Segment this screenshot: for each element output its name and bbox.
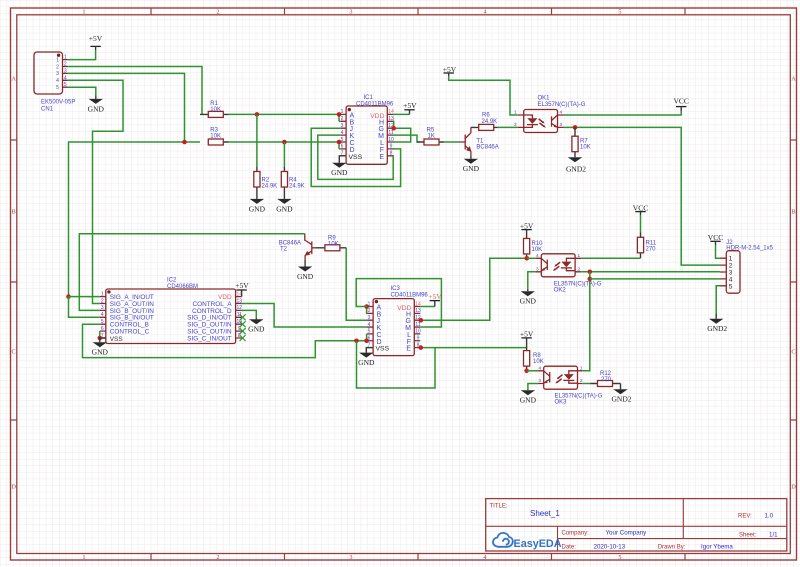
svg-text:Your Company: Your Company xyxy=(606,530,648,537)
wire junction to IC2.4 xyxy=(69,297,100,318)
svg-text:1: 1 xyxy=(580,366,583,372)
svg-text:1/1: 1/1 xyxy=(769,531,778,538)
svg-text:C: C xyxy=(11,349,15,356)
svg-text:1: 1 xyxy=(514,110,517,116)
svg-text:OK3: OK3 xyxy=(555,400,568,406)
svg-text:VCC: VCC xyxy=(673,97,688,106)
svg-text:6: 6 xyxy=(101,326,104,332)
wire R8 node to OK3 pin4 xyxy=(527,370,538,372)
node junction IC3 pin12 xyxy=(419,318,424,323)
svg-text:5: 5 xyxy=(101,319,104,325)
svg-text:3: 3 xyxy=(349,554,352,561)
resistor R5 1K xyxy=(417,128,444,146)
svg-text:CONTROL_C: CONTROL_C xyxy=(110,329,150,336)
svg-text:R6: R6 xyxy=(482,113,490,119)
svg-text:+5V: +5V xyxy=(235,281,249,290)
wire VCC to J2 pin1 xyxy=(716,245,721,258)
node junction IC3 pin6 tie xyxy=(364,338,369,343)
svg-text:A: A xyxy=(11,76,16,83)
svg-text:10: 10 xyxy=(415,329,421,335)
svg-text:C: C xyxy=(791,349,795,356)
ground GND (IC2 pin12) xyxy=(248,318,265,334)
svg-text:VDD: VDD xyxy=(370,113,384,120)
svg-text:5: 5 xyxy=(618,554,621,561)
svg-text:3: 3 xyxy=(368,315,371,321)
svg-text:+5V: +5V xyxy=(89,34,103,43)
resistor R10 10K xyxy=(524,230,544,259)
node junction J2 pin4 tap xyxy=(588,277,593,282)
svg-text:10K: 10K xyxy=(533,359,544,365)
wire CN1.3 to R3 junction xyxy=(68,73,185,142)
node junction IC3 pin8 xyxy=(419,345,424,350)
wire tap to J2 pin4 xyxy=(590,278,720,280)
wire junction to R3 left xyxy=(185,141,201,143)
svg-text:REV:: REV: xyxy=(738,513,752,519)
svg-text:T2: T2 xyxy=(280,247,288,253)
svg-text:GND: GND xyxy=(248,325,265,334)
optocoupler OK1 EL357N(C)(TA)-G xyxy=(514,96,586,133)
svg-text:VDD: VDD xyxy=(397,305,411,312)
wire IC2.12 CONTROL_D to GND xyxy=(242,310,257,318)
svg-text:9: 9 xyxy=(390,144,393,150)
wire OK2 pin2 to J2 pin3 xyxy=(581,271,720,273)
svg-text:11: 11 xyxy=(415,322,420,328)
wire IC2.13 CONTROL_A to IC3 pin4 xyxy=(242,304,368,328)
wire CN1.1 to +5V xyxy=(68,50,96,60)
wire junction to R2 xyxy=(256,114,258,166)
svg-text:1: 1 xyxy=(82,554,85,561)
svg-text:9: 9 xyxy=(417,336,420,342)
wire IC2.6 CONTROL_C to VSS xyxy=(99,331,101,338)
ground GND (R2) xyxy=(249,199,266,214)
svg-text:Date:: Date: xyxy=(562,545,577,551)
svg-text:VSS: VSS xyxy=(110,336,123,343)
no-connect X IC2 pin11 xyxy=(240,314,246,320)
svg-text:Igor Ybema: Igor Ybema xyxy=(701,544,733,551)
svg-text:OK2: OK2 xyxy=(554,287,567,293)
svg-text:GND: GND xyxy=(92,348,109,357)
svg-text:8: 8 xyxy=(390,151,393,157)
node junction CN1.3/R3 xyxy=(182,140,187,145)
wire junction to IC2 net xyxy=(69,142,185,297)
svg-text:2: 2 xyxy=(216,554,219,561)
wire CN1.2 to R1 xyxy=(68,67,203,115)
svg-text:GND2: GND2 xyxy=(566,165,586,174)
wire IC2.5 CONTROL_B to IC3 pin6 xyxy=(83,324,368,357)
svg-text:OK1: OK1 xyxy=(538,96,551,102)
wire IC3 pin5 tie pin6 xyxy=(366,334,369,341)
power flag +5V (CN1 pin1) xyxy=(89,34,103,46)
svg-text:CD4011BM96: CD4011BM96 xyxy=(391,293,429,299)
ground GND2 (J2) xyxy=(707,314,727,333)
svg-text:GND: GND xyxy=(520,297,537,306)
svg-text:GND: GND xyxy=(331,168,348,177)
svg-text:VSS: VSS xyxy=(349,154,363,161)
title block xyxy=(486,499,787,551)
wire IC1 pin11 to R5 xyxy=(393,135,419,142)
svg-text:10K: 10K xyxy=(532,247,543,253)
wire IC3 pin1 tie pin2 xyxy=(366,307,369,314)
svg-text:GND: GND xyxy=(276,204,293,213)
svg-text:4: 4 xyxy=(64,75,67,81)
svg-text:2: 2 xyxy=(341,116,344,122)
ground GND (IC3 VSS) xyxy=(358,348,375,367)
svg-text:270: 270 xyxy=(646,247,657,253)
wire OK2 pin3 to GND xyxy=(528,272,536,289)
wire +5V to OK1 pin1 xyxy=(448,73,450,76)
svg-text:IC3: IC3 xyxy=(391,286,401,292)
transistor T2 BC846A xyxy=(279,234,316,260)
power flag +5V (R8) xyxy=(520,330,534,343)
wire OK3 pin2 to R12 xyxy=(582,383,590,385)
transistor T1 BC846A xyxy=(459,127,499,156)
resistor R11 270 xyxy=(637,233,656,259)
resistor R9 10K xyxy=(315,236,346,251)
svg-text:GND2: GND2 xyxy=(707,324,727,333)
wire OK1 pin4 to VCC xyxy=(564,111,682,115)
wire junction to R4 xyxy=(283,142,285,167)
svg-text:VSS: VSS xyxy=(376,346,390,353)
svg-text:3: 3 xyxy=(538,378,541,384)
ground GND (IC2 VSS) xyxy=(92,338,109,357)
ground GND (T1) xyxy=(463,157,480,174)
power flag +5V (IC1 pin14) xyxy=(393,101,417,114)
optocoupler OK3 EL357N(C)(TA)-G xyxy=(538,366,603,406)
svg-text:BC846A: BC846A xyxy=(476,144,498,150)
svg-text:CN1: CN1 xyxy=(41,107,54,113)
svg-text:4: 4 xyxy=(536,253,539,259)
wire IC3 pin12 to OK2 pin4 node xyxy=(420,258,527,320)
node junction R3/R4 xyxy=(282,140,287,145)
svg-text:B: B xyxy=(11,209,15,216)
node junction OK1.3/R7 xyxy=(573,125,578,130)
resistor R6 24.9K xyxy=(471,113,498,131)
svg-text:EK500V-05P: EK500V-05P xyxy=(41,100,75,106)
svg-text:IC1: IC1 xyxy=(364,95,374,101)
svg-text:24.9K: 24.9K xyxy=(482,119,498,125)
optocoupler OK2 EL357N(C)(TA)-G xyxy=(535,253,602,293)
wire junction to IC2.1 xyxy=(69,296,100,298)
svg-text:2: 2 xyxy=(101,298,104,304)
resistor R7 10K xyxy=(572,127,591,157)
wire IC2.3 from T2 collector xyxy=(79,234,304,311)
svg-text:+5V: +5V xyxy=(403,101,417,110)
svg-text:CD4011BM96: CD4011BM96 xyxy=(356,102,394,108)
wire R6 to OK1 pin2 xyxy=(498,126,518,128)
no-connect X IC2 pin10 xyxy=(240,321,246,327)
svg-text:13: 13 xyxy=(415,308,421,314)
resistor R1 10K xyxy=(200,101,229,117)
svg-text:1: 1 xyxy=(578,253,581,259)
wire IC1 pins 12-13 tie to pin10 xyxy=(393,121,411,142)
svg-text:3: 3 xyxy=(560,122,563,128)
wire R5 to T1 base xyxy=(444,141,460,143)
svg-text:2: 2 xyxy=(514,122,517,128)
svg-text:Drawn By:: Drawn By: xyxy=(658,545,686,551)
svg-text:IC2: IC2 xyxy=(167,278,177,284)
node junction OK2 pin4 xyxy=(525,256,530,261)
no-connect X IC2 pin9 xyxy=(240,328,246,334)
resistor R4 24.9K xyxy=(281,167,304,199)
wire R10 node to OK2 pin4 xyxy=(527,257,536,259)
svg-text:2: 2 xyxy=(56,64,59,70)
svg-text:VCC: VCC xyxy=(633,203,648,212)
wire IC3 pin1 loop to pin11 xyxy=(356,279,441,327)
svg-text:4: 4 xyxy=(368,322,371,328)
ground GND2 (R12) xyxy=(612,384,632,404)
power flag +5V (IC3 pin14) red label xyxy=(420,292,442,307)
power flag +5V (R10) xyxy=(520,221,534,230)
svg-text:Sheet:: Sheet: xyxy=(739,532,757,538)
svg-text:D: D xyxy=(11,484,16,491)
power flag +5V (IC2 pin14) xyxy=(235,281,249,296)
svg-text:VCC: VCC xyxy=(708,233,723,242)
resistor R3 10K xyxy=(208,128,229,146)
svg-text:2020-10-13: 2020-10-13 xyxy=(594,544,626,551)
IC IC3 CD4011BM96 xyxy=(367,286,428,356)
svg-text:6: 6 xyxy=(341,144,344,150)
power flag VCC (OK1 pin4) xyxy=(673,97,688,111)
svg-text:EasyEDA: EasyEDA xyxy=(514,538,562,550)
node junction IC2 pin1 net xyxy=(66,294,71,299)
node junction R1/R2 xyxy=(255,112,260,117)
ground GND (IC1 VSS) xyxy=(331,156,348,177)
svg-text:CD4066BM: CD4066BM xyxy=(167,284,198,290)
node junction OK3 pin4 xyxy=(524,369,529,374)
svg-text:3: 3 xyxy=(101,305,104,311)
svg-text:1: 1 xyxy=(101,291,104,297)
connector CN1 EK500V-05P xyxy=(34,52,75,113)
wire R3 to IC1 pins 5-6 xyxy=(229,142,341,149)
svg-text:3: 3 xyxy=(349,9,352,16)
wire CN1.4 to IC2.2 xyxy=(68,80,124,303)
svg-text:2: 2 xyxy=(64,62,67,68)
ground GND (OK2) xyxy=(520,289,537,306)
svg-text:1: 1 xyxy=(64,55,67,61)
node junction IC3 pin6 loop xyxy=(354,338,359,343)
svg-text:1K: 1K xyxy=(428,134,435,140)
svg-text:VDD: VDD xyxy=(218,294,232,301)
svg-text:2: 2 xyxy=(578,266,581,272)
connector J2 HDR-M-2.54_1x5 xyxy=(720,240,774,293)
svg-text:1.0: 1.0 xyxy=(765,512,774,519)
svg-text:2: 2 xyxy=(368,308,371,314)
node junction IC2 VSS xyxy=(98,336,103,341)
node junction IC3 pin1 xyxy=(364,304,369,309)
svg-text:4: 4 xyxy=(56,78,59,84)
resistor R12 270 xyxy=(590,371,620,387)
svg-text:E: E xyxy=(379,154,384,161)
node junction IC1 pin1 xyxy=(337,112,342,117)
svg-text:TITLE:: TITLE: xyxy=(490,504,508,510)
node junction IC1 pin5 xyxy=(337,140,342,145)
svg-text:GND: GND xyxy=(249,204,266,213)
svg-text:EL357N(C)(TA)-G: EL357N(C)(TA)-G xyxy=(538,102,586,108)
svg-text:5: 5 xyxy=(618,9,621,16)
svg-text:14: 14 xyxy=(415,301,421,307)
wire IC3 pin6 loop to pin8 xyxy=(357,341,436,388)
svg-text:SIG_C_IN/OUT: SIG_C_IN/OUT xyxy=(187,335,231,342)
wire R9 to IC3 pin3 xyxy=(346,248,367,320)
svg-text:1: 1 xyxy=(341,109,344,115)
svg-text:4: 4 xyxy=(560,110,563,116)
wire IC1 pin4 from pin8 xyxy=(318,135,393,179)
resistor R8 10K xyxy=(524,343,544,371)
ground GND (CN1) xyxy=(88,96,105,114)
power flag VCC (R11) xyxy=(633,203,648,215)
wire IC3 pin8 to R8 xyxy=(420,347,526,349)
ground GND (T2) xyxy=(297,260,314,281)
svg-text:5: 5 xyxy=(64,82,67,88)
IC IC1 CD4011BM96 xyxy=(340,95,394,164)
svg-text:10K: 10K xyxy=(210,107,221,113)
svg-text:D: D xyxy=(791,484,796,491)
svg-text:5: 5 xyxy=(341,137,344,143)
svg-text:+5V: +5V xyxy=(520,221,534,230)
wire IC1 pin3 from pin9 xyxy=(311,128,400,186)
svg-text:4: 4 xyxy=(538,366,541,372)
svg-text:5: 5 xyxy=(729,283,733,290)
wire VCC to R11 xyxy=(640,215,642,233)
svg-text:10K: 10K xyxy=(328,242,339,248)
wire R11 to OK2 pin1 xyxy=(581,257,640,259)
svg-text:24.9K: 24.9K xyxy=(289,184,305,190)
svg-text:B: B xyxy=(791,209,795,216)
svg-text:3: 3 xyxy=(56,71,59,77)
ground GND2 (R7) xyxy=(566,157,586,173)
svg-text:10K: 10K xyxy=(580,145,591,151)
ground GND (OK3) xyxy=(520,390,537,404)
svg-text:HDR-M-2.54_1x5: HDR-M-2.54_1x5 xyxy=(726,245,773,251)
svg-text:13: 13 xyxy=(237,298,243,304)
svg-text:GND: GND xyxy=(520,396,537,405)
svg-text:E: E xyxy=(406,346,411,353)
svg-text:Sheet_1: Sheet_1 xyxy=(530,509,560,518)
wire OK3 pin3 to GND xyxy=(528,384,538,391)
svg-text:11: 11 xyxy=(237,312,242,318)
svg-text:1: 1 xyxy=(56,57,59,63)
wire J2 pin5 to GND2 xyxy=(716,286,720,314)
wire OK1 pin3 to R7 and J2 pin2 xyxy=(564,127,721,265)
EasyEDA logo xyxy=(493,533,562,550)
resistor R2 24.9K xyxy=(254,167,277,199)
svg-text:GND: GND xyxy=(463,164,480,173)
svg-text:GND: GND xyxy=(358,358,375,367)
svg-text:270: 270 xyxy=(601,377,612,383)
svg-text:Company:: Company: xyxy=(562,531,590,537)
svg-text:A: A xyxy=(791,76,796,83)
svg-text:+5V: +5V xyxy=(428,292,442,301)
node junction IC1 pin12 xyxy=(391,126,396,131)
svg-text:4: 4 xyxy=(101,312,104,318)
svg-text:3: 3 xyxy=(64,68,67,74)
IC IC2 CD4066BM xyxy=(100,278,242,344)
svg-text:10K: 10K xyxy=(210,134,221,140)
svg-text:GND: GND xyxy=(88,104,105,113)
svg-text:2: 2 xyxy=(216,9,219,16)
no-connect X IC2 pin8 xyxy=(240,335,246,341)
svg-text:5: 5 xyxy=(56,85,59,91)
svg-text:1: 1 xyxy=(82,9,85,16)
svg-text:3: 3 xyxy=(341,123,344,129)
power flag +5V (OK1) xyxy=(443,65,457,74)
svg-text:24.9K: 24.9K xyxy=(262,184,278,190)
wire CN1.5 to GND xyxy=(68,87,96,95)
svg-text:GND: GND xyxy=(297,272,314,281)
svg-text:3: 3 xyxy=(536,266,539,272)
node junction OK2.2 drop xyxy=(588,270,593,275)
svg-text:4: 4 xyxy=(341,130,344,136)
svg-text:12: 12 xyxy=(237,305,243,311)
ground GND (R4) xyxy=(276,199,293,214)
wire drop to OK3 pin1 xyxy=(582,272,590,371)
svg-text:5: 5 xyxy=(368,329,371,335)
power flag VCC (J2 pin1) xyxy=(708,233,723,245)
wire R1 to IC1 pins 1-2 xyxy=(229,114,341,121)
svg-text:GND2: GND2 xyxy=(612,395,632,404)
